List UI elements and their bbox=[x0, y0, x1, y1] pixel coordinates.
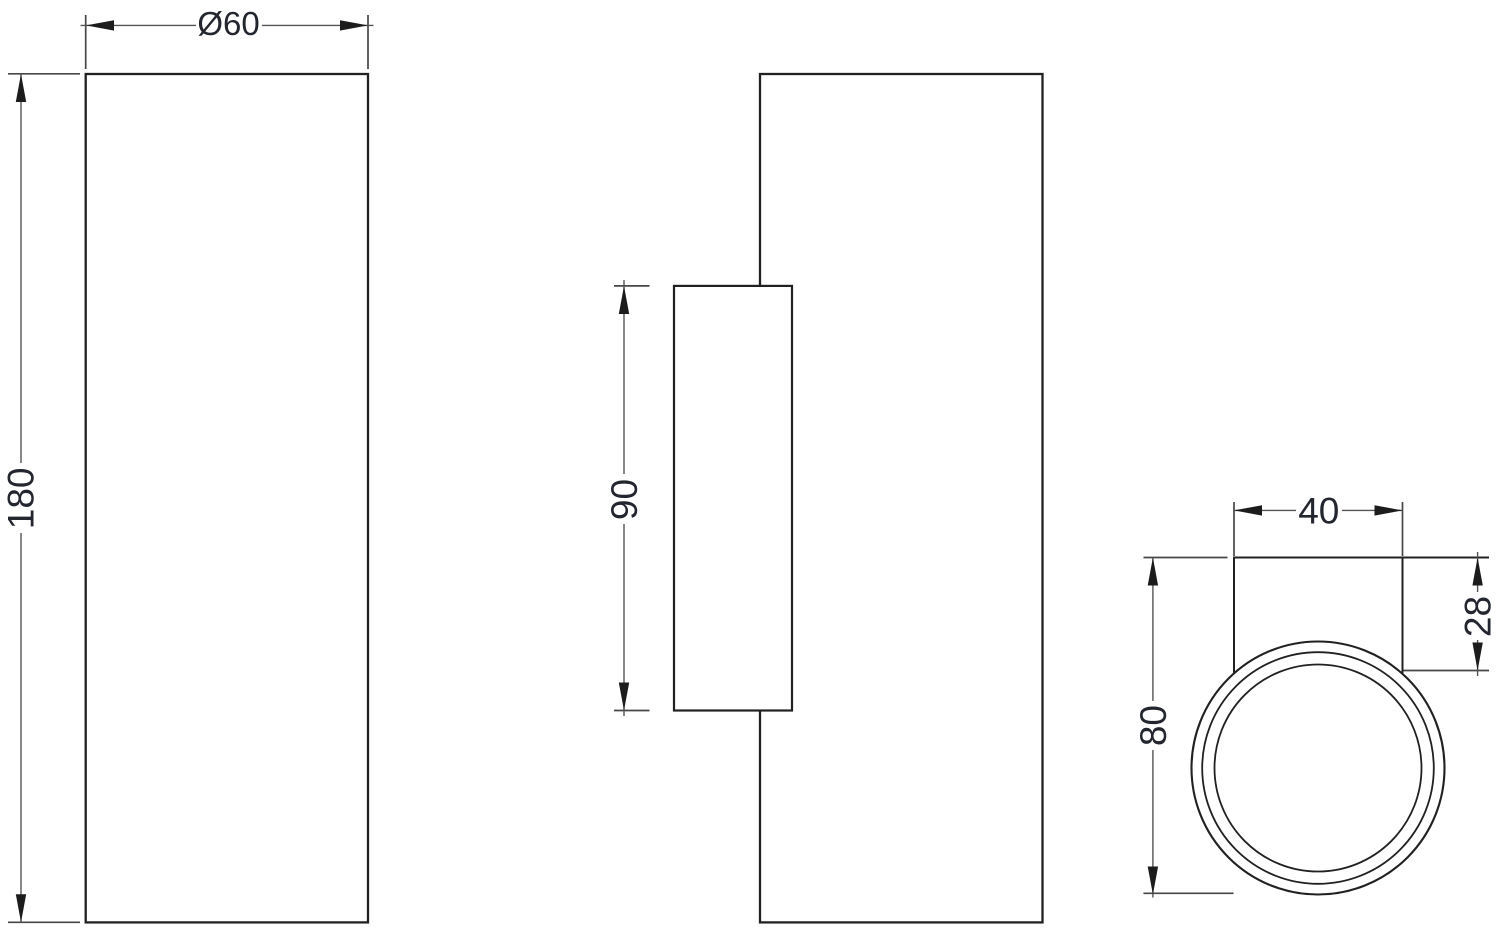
label 90 bbox=[606, 474, 642, 524]
top view bracket right edge bbox=[1402, 558, 1404, 674]
arrowhead 40 left bbox=[1234, 505, 1262, 515]
svg-text:180: 180 bbox=[1, 468, 42, 530]
svg-text:28: 28 bbox=[1457, 596, 1498, 637]
arrowhead height top bbox=[16, 74, 26, 102]
svg-text:90: 90 bbox=[604, 479, 645, 520]
arrowhead 80 top bbox=[1148, 558, 1158, 586]
arrowhead 80 bottom bbox=[1148, 867, 1158, 895]
dimension line 40 bbox=[1234, 509, 1403, 511]
arrowhead bracket top bbox=[619, 286, 629, 314]
extension tick top of bracket dim bbox=[614, 285, 650, 287]
extension tick bottom of bracket dim bbox=[614, 710, 650, 712]
arrowhead 28 top bbox=[1472, 558, 1482, 586]
side view wall bracket outline bbox=[674, 286, 792, 711]
svg-text:80: 80 bbox=[1133, 705, 1174, 746]
extension line 40 right bbox=[1402, 502, 1404, 556]
svg-text:40: 40 bbox=[1298, 490, 1339, 531]
extension line left of diameter dim bbox=[85, 15, 87, 69]
extension line 80 top bbox=[1144, 557, 1228, 559]
arrowhead bracket bottom bbox=[619, 683, 629, 711]
dimension line 28 bbox=[1477, 552, 1479, 676]
extension line right of diameter dim bbox=[367, 15, 369, 69]
label 180 bbox=[2, 463, 39, 533]
top view outer circle bbox=[1192, 642, 1445, 895]
top view middle circle bbox=[1202, 652, 1434, 884]
top view inner circle bbox=[1215, 665, 1422, 872]
svg-text:Ø60: Ø60 bbox=[197, 5, 259, 42]
extension line 40 left bbox=[1233, 502, 1235, 556]
front view cylinder body outline bbox=[86, 74, 368, 922]
dimension line height 180 bbox=[20, 74, 22, 922]
extension tick top of height dim bbox=[8, 73, 80, 75]
extension tick bottom of height dim bbox=[8, 921, 80, 923]
label 80 bbox=[1134, 701, 1172, 750]
label 28 bbox=[1459, 592, 1496, 640]
top view bracket top edge with 28 extension bbox=[1233, 557, 1489, 559]
arrowhead diameter left bbox=[86, 20, 114, 30]
label 40 bbox=[1296, 493, 1342, 527]
label D60 bbox=[196, 8, 262, 41]
dimension line bracket 90 bbox=[623, 280, 625, 716]
dimension line 80 bbox=[1152, 558, 1154, 898]
arrowhead diameter right bbox=[340, 20, 368, 30]
arrowhead 28 bottom bbox=[1472, 643, 1482, 671]
top view bracket left edge bbox=[1233, 558, 1235, 674]
extension line 80 bottom bbox=[1143, 892, 1233, 894]
extension line 28 bottom bbox=[1404, 670, 1490, 672]
dimension line diameter 60 bbox=[81, 24, 374, 26]
arrowhead height bottom bbox=[16, 894, 26, 922]
arrowhead 40 right bbox=[1375, 505, 1403, 515]
side view cylinder body outline bbox=[760, 74, 1043, 922]
